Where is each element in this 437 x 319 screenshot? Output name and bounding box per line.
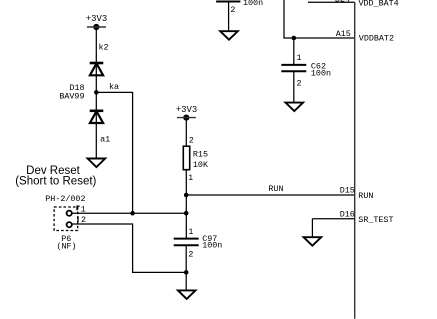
svg-text:(NF): (NF) [56,241,76,251]
svg-text:VDDBAT2: VDDBAT2 [359,34,394,44]
svg-text:RUN: RUN [268,184,283,194]
svg-text:(Short to Reset): (Short to Reset) [15,176,96,188]
svg-text:+3V3: +3V3 [176,105,197,115]
svg-text:PH-2/002: PH-2/002 [45,194,85,204]
svg-text:B24: B24 [335,0,350,4]
svg-text:1: 1 [188,173,193,183]
svg-text:2: 2 [81,215,86,225]
svg-text:+3V3: +3V3 [86,14,107,24]
svg-text:k2: k2 [99,42,109,52]
svg-text:2: 2 [297,79,302,89]
svg-text:RUN: RUN [358,191,373,201]
svg-text:R15: R15 [193,149,208,159]
svg-text:100n: 100n [243,0,263,8]
svg-text:A15: A15 [336,29,351,39]
svg-text:ka: ka [109,82,119,92]
svg-text:100n: 100n [202,240,222,250]
svg-text:2: 2 [189,135,194,145]
svg-text:BAV99: BAV99 [59,92,84,102]
svg-text:1: 1 [188,227,193,237]
svg-text:100n: 100n [311,69,331,79]
svg-text:D16: D16 [340,210,355,220]
svg-text:SR_TEST: SR_TEST [358,215,393,225]
svg-text:a1: a1 [100,134,110,144]
svg-text:D15: D15 [340,185,355,195]
svg-text:2: 2 [188,249,193,259]
svg-text:1: 1 [81,204,86,214]
svg-text:10K: 10K [193,160,209,170]
svg-text:1: 1 [297,53,302,63]
svg-text:2: 2 [230,5,235,15]
svg-text:VDD_BAT4: VDD_BAT4 [359,0,399,8]
